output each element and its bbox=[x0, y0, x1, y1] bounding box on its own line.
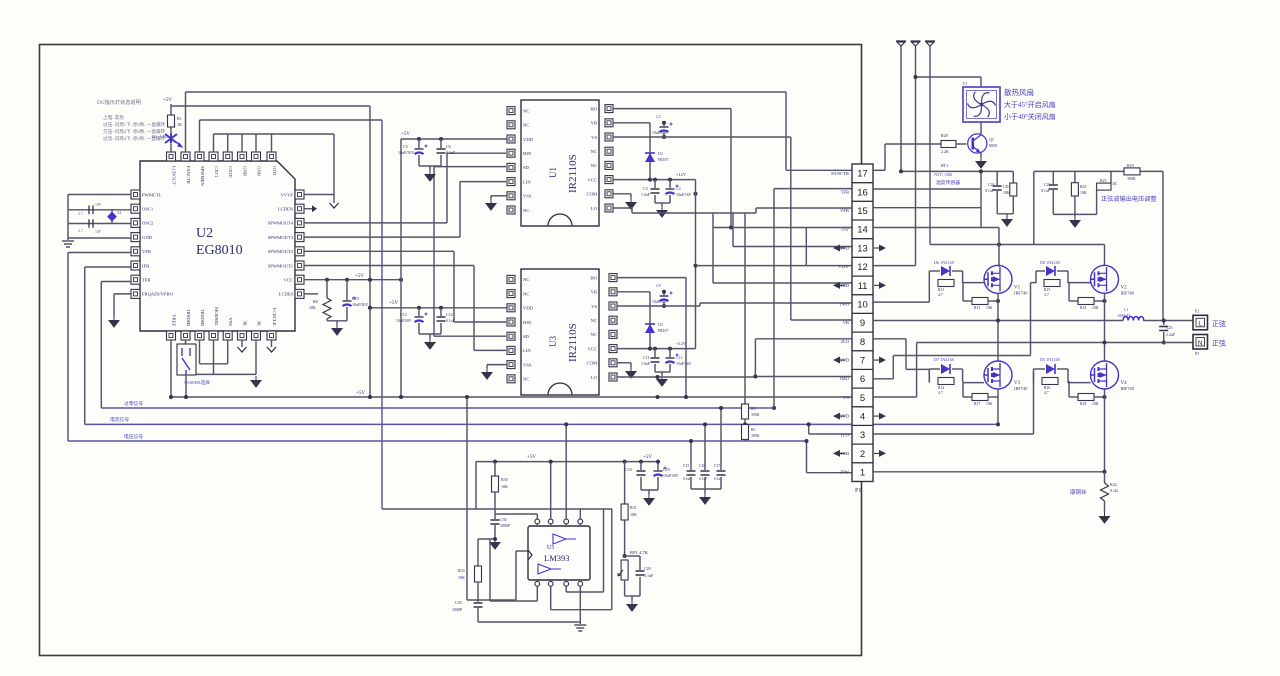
wire taps bbox=[1052, 171, 1054, 184]
U3 left pins bbox=[507, 275, 515, 283]
svg-text:10uF/50V: 10uF/50V bbox=[652, 131, 668, 135]
svg-text:SD: SD bbox=[523, 165, 530, 170]
svg-text:D1: D1 bbox=[152, 134, 157, 139]
wire VVVF bbox=[304, 194, 334, 196]
svg-text:HO: HO bbox=[590, 106, 597, 111]
wire bottom pins 3-5 bus bbox=[199, 340, 201, 364]
resistor R8 10K bbox=[326, 280, 328, 298]
pin8b stub arrow bbox=[271, 340, 273, 347]
crystal X1 bbox=[111, 210, 113, 224]
svg-text:FANCTR: FANCTR bbox=[831, 171, 850, 176]
join and ground bbox=[624, 580, 626, 596]
wire SPWMOUT1 to U3 LIN bbox=[304, 265, 474, 267]
wire V1 source to V3 drain bbox=[997, 293, 999, 361]
svg-text:LO: LO bbox=[591, 206, 598, 211]
svg-text:390K: 390K bbox=[751, 413, 760, 417]
svg-text:VB: VB bbox=[591, 121, 597, 126]
svg-text:CXT0: CXT0 bbox=[228, 166, 233, 178]
svg-text:0.1uF: 0.1uF bbox=[985, 189, 995, 193]
svg-text:OTD: OTD bbox=[272, 166, 277, 176]
wire caps join ground bbox=[418, 323, 420, 334]
wire V2 source to V4 drain bbox=[1104, 293, 1106, 361]
svg-text:C19: C19 bbox=[663, 467, 670, 472]
svg-text:10K: 10K bbox=[1092, 402, 1099, 406]
LED D1 bbox=[165, 134, 177, 144]
wire U3 COM to ground bbox=[617, 362, 631, 364]
svg-text:10: 10 bbox=[857, 299, 868, 310]
join and ground bbox=[1052, 190, 1054, 214]
wire P1 pin15 right bbox=[873, 207, 981, 209]
svg-text:VCC: VCC bbox=[588, 346, 597, 351]
resistor R31 10K bbox=[624, 462, 626, 504]
feedback bus IFB bbox=[85, 423, 998, 425]
svg-text:C18: C18 bbox=[625, 467, 632, 472]
wire P1 pin5 +5V bus bbox=[171, 396, 852, 398]
svg-text:R33: R33 bbox=[458, 568, 465, 573]
capacitor C24 0.1uF bbox=[993, 186, 1002, 190]
diode D2 FR107 bbox=[645, 153, 655, 162]
svg-text:RT1: RT1 bbox=[941, 163, 948, 168]
capacitor C3 1.0uF bbox=[654, 180, 656, 188]
wire FRQADJ to ground bbox=[114, 293, 131, 295]
wire taps bbox=[996, 171, 998, 185]
join ground bbox=[640, 477, 642, 490]
capacitor C14 0.1uF bbox=[440, 308, 442, 316]
wire U3 VCC +12V bbox=[617, 348, 696, 350]
svg-text:12: 12 bbox=[857, 262, 868, 273]
svg-text:C8: C8 bbox=[656, 283, 661, 288]
junction bbox=[1103, 341, 1107, 345]
wire pin7b down bbox=[255, 340, 257, 374]
resistor R5 390K bbox=[742, 425, 749, 440]
svg-text:正弦: 正弦 bbox=[1212, 319, 1226, 328]
capacitor C19 10uF/50V bbox=[657, 461, 659, 463]
ic U3 IR2110S body bbox=[521, 269, 599, 395]
svg-text:LCDE0: LCDE0 bbox=[279, 292, 294, 297]
svg-text:IRF740: IRF740 bbox=[1121, 290, 1135, 295]
mosfet V4 IRF740 bbox=[1091, 361, 1119, 389]
capacitor C13 10uF/50V bbox=[418, 308, 420, 316]
wire U1 LO to P1 pin15 bbox=[613, 207, 632, 209]
wire pin5 riser to N bbox=[916, 343, 918, 398]
svg-text:+12V: +12V bbox=[838, 264, 849, 269]
capacitor C29 1000P bbox=[477, 582, 479, 602]
svg-text:SPWMOUT2: SPWMOUT2 bbox=[268, 249, 294, 254]
svg-text:R16: R16 bbox=[1044, 386, 1050, 390]
svg-text:+5V: +5V bbox=[356, 391, 365, 396]
svg-text:R15: R15 bbox=[1044, 288, 1050, 292]
svg-text:VCC: VCC bbox=[588, 177, 597, 182]
svg-text:4.7: 4.7 bbox=[1044, 391, 1049, 395]
ground bbox=[490, 538, 500, 549]
wire U1 COM to ground bbox=[613, 193, 631, 195]
U1 right pins bbox=[605, 105, 613, 113]
capacitor C10 10uF/50V bbox=[346, 280, 348, 300]
svg-text:VSS: VSS bbox=[523, 194, 532, 199]
svg-text:LO: LO bbox=[591, 375, 598, 380]
wire bbox=[170, 144, 172, 152]
ic U5 LM393 body bbox=[528, 526, 590, 580]
svg-text:10uF/50V: 10uF/50V bbox=[663, 474, 679, 478]
svg-text:HIN: HIN bbox=[523, 320, 532, 325]
wire P1 pin11 gnd bbox=[713, 282, 852, 284]
svg-text:+5V: +5V bbox=[389, 301, 398, 306]
capacitor C6 0.1uF bbox=[440, 139, 442, 148]
svg-text:+12V: +12V bbox=[676, 172, 687, 177]
svg-text:PWMCTL: PWMCTL bbox=[142, 192, 162, 197]
mosfet V1 IRF740 bbox=[984, 265, 1012, 293]
svg-text:+12V: +12V bbox=[676, 341, 687, 346]
svg-text:+5V: +5V bbox=[643, 455, 652, 460]
svg-text:SPWMOUT4: SPWMOUT4 bbox=[268, 221, 294, 226]
wire LCDEN stub bbox=[304, 208, 312, 210]
svg-text:R31: R31 bbox=[630, 505, 637, 510]
svg-text:GND: GND bbox=[243, 166, 248, 177]
svg-text:C11: C11 bbox=[643, 355, 650, 360]
svg-text:X1: X1 bbox=[117, 211, 122, 215]
svg-text:IRF740: IRF740 bbox=[1014, 386, 1028, 391]
svg-text:JK: JK bbox=[257, 321, 262, 327]
op-amp triangles bbox=[538, 534, 566, 574]
wire U1 HO to P1 pin14 bbox=[613, 108, 731, 110]
svg-text:FR107: FR107 bbox=[658, 329, 668, 333]
svg-text:C6: C6 bbox=[446, 144, 451, 149]
svg-text:1.0uF: 1.0uF bbox=[641, 193, 650, 197]
svg-text:C16: C16 bbox=[699, 464, 705, 468]
svg-text:COM: COM bbox=[587, 361, 597, 366]
ground bbox=[626, 198, 636, 209]
capacitor C23 2.2uF bbox=[1163, 321, 1165, 326]
resistor R18 10K pulldown bbox=[1068, 381, 1070, 397]
svg-text:NC: NC bbox=[523, 123, 529, 128]
wires bottom pins bbox=[536, 586, 538, 601]
svg-text:C29: C29 bbox=[455, 600, 462, 605]
fan F1 bbox=[963, 87, 1000, 122]
svg-text:EG8010: EG8010 bbox=[196, 243, 243, 258]
svg-text:5: 5 bbox=[860, 393, 865, 404]
P1 gnd arrows bbox=[833, 245, 840, 252]
svg-text:1LO: 1LO bbox=[841, 432, 850, 437]
svg-text:NTC-10K: NTC-10K bbox=[934, 172, 953, 177]
svg-text:IRF740: IRF740 bbox=[1014, 290, 1028, 295]
svg-text:0.1uF: 0.1uF bbox=[446, 319, 455, 323]
svg-text:TFB: TFB bbox=[142, 278, 150, 283]
resistor R1 1K bbox=[168, 115, 175, 127]
svg-text:TRSD0B: TRSD0B bbox=[186, 309, 191, 326]
svg-text:R12: R12 bbox=[938, 386, 944, 390]
svg-text:P3: P3 bbox=[1195, 351, 1199, 356]
svg-text:VFB: VFB bbox=[840, 208, 849, 213]
wire VFB feedback bbox=[68, 252, 131, 254]
wire U1 VSS to ground bbox=[491, 195, 507, 197]
svg-text:10uF/50V: 10uF/50V bbox=[398, 150, 414, 155]
svg-text:康铜丝: 康铜丝 bbox=[1070, 488, 1087, 496]
svg-text:大于45°开启风扇: 大于45°开启风扇 bbox=[1004, 100, 1056, 109]
wire caps to ground bbox=[418, 155, 420, 166]
wire divider column bbox=[744, 213, 746, 404]
capacitor C1 10P bbox=[89, 206, 93, 215]
svg-text:R24: R24 bbox=[1110, 482, 1117, 487]
resistor R19 390K bbox=[1124, 168, 1140, 175]
wire V4 source to shunt row bbox=[1104, 389, 1106, 472]
svg-text:LCDCLK: LCDCLK bbox=[272, 308, 277, 327]
svg-text:过压: 闪烁1下, 停2秒, 一直循环: 过压: 闪烁1下, 停2秒, 一直循环 bbox=[103, 121, 166, 128]
svg-text:R23: R23 bbox=[1080, 185, 1087, 189]
svg-text:4.7: 4.7 bbox=[938, 293, 943, 297]
svg-text:IR2110S: IR2110S bbox=[567, 154, 579, 193]
wire top gnd bus bbox=[213, 134, 215, 152]
svg-text:C4: C4 bbox=[676, 186, 681, 191]
svg-text:17: 17 bbox=[857, 169, 868, 180]
svg-text:C24: C24 bbox=[988, 183, 995, 187]
svg-text:+5V: +5V bbox=[401, 132, 410, 137]
wire pin1 tap bbox=[806, 441, 808, 473]
svg-text:VSS: VSS bbox=[228, 318, 233, 327]
svg-text:LM393: LM393 bbox=[544, 553, 570, 563]
svg-text:8050: 8050 bbox=[989, 143, 997, 148]
svg-text:小于40°关闭风扇: 小于40°关闭风扇 bbox=[1004, 112, 1056, 121]
svg-text:NC: NC bbox=[591, 318, 597, 323]
svg-text:R21: R21 bbox=[1100, 179, 1107, 183]
shunt resistor R24 0.1R bbox=[1104, 472, 1106, 483]
wire pin6 to V2 gate riser bbox=[893, 355, 1030, 357]
power flag VCC1 bbox=[896, 41, 906, 49]
svg-text:10P: 10P bbox=[95, 203, 101, 207]
svg-text:SPWMOUT3: SPWMOUT3 bbox=[268, 235, 294, 240]
svg-text:D3: D3 bbox=[658, 322, 663, 327]
wire to switch bbox=[196, 373, 256, 375]
svg-text:GND: GND bbox=[257, 166, 262, 177]
wire Q1 emitter gnd bbox=[980, 153, 982, 157]
wire P1 pin17 right bbox=[873, 169, 885, 171]
svg-text:HIN: HIN bbox=[523, 151, 532, 156]
ground bbox=[425, 338, 435, 349]
wire P1 pin13 gnd bbox=[733, 246, 852, 248]
filter capacitors C15 C16 C17 bbox=[690, 441, 692, 470]
svg-text:R11: R11 bbox=[938, 288, 944, 292]
ground bar bbox=[62, 241, 74, 247]
resistor R30 10K bbox=[494, 462, 496, 476]
svg-text:VSS: VSS bbox=[523, 362, 532, 367]
svg-text:50/60HZ选择: 50/60HZ选择 bbox=[184, 379, 210, 386]
wire LCDE0 pin bbox=[304, 293, 318, 295]
capacitor C30 1000P bbox=[494, 516, 496, 519]
wire long riser x467 bbox=[466, 397, 468, 600]
wire caps join ground bbox=[654, 364, 656, 372]
svg-text:D6 1N4148: D6 1N4148 bbox=[934, 260, 954, 265]
join and ground bbox=[996, 191, 998, 214]
svg-text:R8: R8 bbox=[313, 299, 318, 304]
svg-text:NC: NC bbox=[523, 377, 529, 382]
svg-text:NC: NC bbox=[523, 108, 529, 113]
svg-text:OSC1: OSC1 bbox=[142, 207, 154, 212]
wire pin3 tap bbox=[808, 424, 810, 434]
ground bbox=[425, 170, 435, 181]
svg-text:COM: COM bbox=[587, 192, 597, 197]
svg-text:P1: P1 bbox=[855, 488, 861, 494]
svg-text:16: 16 bbox=[857, 187, 868, 198]
svg-text:FANCTR: FANCTR bbox=[186, 166, 191, 185]
svg-text:TFB: TFB bbox=[841, 189, 849, 194]
svg-text:VDD: VDD bbox=[523, 306, 534, 311]
svg-text:+5V: +5V bbox=[841, 227, 850, 232]
svg-text:10uF/16V: 10uF/16V bbox=[676, 193, 692, 197]
wire P1 pin16 to RT1 bbox=[873, 188, 981, 190]
wire TFB feedback bbox=[101, 281, 131, 283]
svg-text:2LO: 2LO bbox=[841, 339, 850, 344]
capacitor C5 10uF/50V bbox=[418, 139, 420, 148]
capacitor C21 0.1uF bbox=[1049, 185, 1058, 189]
svg-text:NC: NC bbox=[523, 208, 529, 213]
svg-text:2.2uF: 2.2uF bbox=[1166, 333, 1176, 337]
svg-text:C23: C23 bbox=[1166, 326, 1173, 330]
svg-text:1K: 1K bbox=[177, 122, 182, 127]
svg-text:0.1uF: 0.1uF bbox=[699, 477, 707, 481]
svg-text:散热风扇: 散热风扇 bbox=[1004, 87, 1034, 97]
svg-text:电流信号: 电流信号 bbox=[110, 416, 129, 423]
wire caps join ground bbox=[654, 195, 656, 203]
wire U1 VCC +12V bbox=[613, 179, 696, 181]
switch 50/60Hz select bbox=[185, 340, 187, 344]
mosfet V2 IRF740 bbox=[1091, 265, 1119, 293]
svg-text:VB: VB bbox=[843, 320, 849, 325]
svg-text:+5V: +5V bbox=[355, 274, 364, 279]
svg-text:1000P: 1000P bbox=[500, 523, 511, 528]
svg-text:VREF: VREF bbox=[172, 314, 177, 326]
ground bbox=[657, 375, 667, 386]
svg-text:正弦: 正弦 bbox=[1212, 339, 1226, 348]
wire pin1b to +5V bus bbox=[170, 340, 172, 397]
svg-text:C2: C2 bbox=[656, 114, 661, 119]
connector P1 17 pins bbox=[852, 164, 873, 482]
svg-text:C5: C5 bbox=[403, 144, 408, 149]
svg-text:VVVF: VVVF bbox=[280, 192, 293, 197]
wire U3 VB bbox=[617, 291, 650, 293]
svg-text:10K: 10K bbox=[986, 402, 993, 406]
svg-text:10uF/50V: 10uF/50V bbox=[352, 302, 368, 307]
wire U1 VS to P1 pin9 bbox=[613, 136, 791, 138]
wire risers bbox=[475, 462, 477, 509]
svg-text:U5: U5 bbox=[547, 545, 554, 551]
wire output N line bbox=[917, 342, 1193, 344]
svg-text:Q1: Q1 bbox=[989, 137, 994, 142]
U2 top pins bbox=[167, 152, 176, 161]
svg-text:10K: 10K bbox=[501, 484, 508, 489]
svg-text:U3: U3 bbox=[548, 336, 558, 347]
svg-text:0.1uF: 0.1uF bbox=[446, 150, 456, 155]
wire SD bus bbox=[433, 167, 435, 337]
svg-text:C10: C10 bbox=[352, 296, 359, 301]
ground bbox=[1100, 512, 1110, 523]
svg-text:10K: 10K bbox=[458, 575, 465, 580]
U2 right pins bbox=[295, 190, 304, 199]
feedback bus VFB bbox=[68, 440, 807, 442]
wire P1 pin16 TFB bbox=[774, 188, 852, 190]
wire V3 source to IFB bus bbox=[997, 389, 999, 424]
LM393 bottom pins bbox=[535, 581, 540, 586]
svg-text:N: N bbox=[1198, 340, 1203, 347]
svg-text:1MO: 1MO bbox=[839, 302, 849, 307]
svg-text:GND: GND bbox=[142, 235, 153, 240]
svg-text:C21: C21 bbox=[1044, 183, 1051, 187]
U3 right pins bbox=[609, 274, 617, 282]
ground bbox=[700, 493, 710, 504]
wire +5V vertical bbox=[369, 106, 371, 397]
wire cap join to ground bbox=[346, 307, 348, 321]
svg-text:FRQADJ/VFBO: FRQADJ/VFBO bbox=[142, 292, 174, 297]
svg-text:C15: C15 bbox=[683, 464, 689, 468]
svg-text:10K: 10K bbox=[986, 306, 993, 310]
svg-text:10K: 10K bbox=[1080, 191, 1087, 195]
ground bbox=[482, 368, 492, 379]
capacitor C11 1.0uF bbox=[654, 349, 656, 357]
svg-text:IFB: IFB bbox=[142, 263, 149, 268]
power flag VCC2 bbox=[911, 41, 921, 49]
svg-text:NC: NC bbox=[591, 149, 597, 154]
resistor R14 10K pulldown bbox=[1068, 283, 1070, 301]
U2 bottom pins bbox=[167, 331, 176, 340]
svg-text:0.1uF: 0.1uF bbox=[1041, 189, 1051, 193]
wire SPWMOUT2 to U3 HIN bbox=[304, 250, 454, 252]
svg-text:1: 1 bbox=[860, 468, 865, 479]
wire x382 to comparator loop bbox=[382, 508, 612, 510]
ground bar bbox=[574, 625, 586, 631]
diode D3 FR107 bbox=[645, 324, 655, 333]
transistor Q1 8050 bbox=[968, 134, 987, 153]
resistor R28 2.2K bbox=[885, 143, 941, 145]
feedback bus TFB bbox=[101, 407, 774, 409]
svg-text:13: 13 bbox=[857, 243, 868, 254]
svg-text:C13: C13 bbox=[400, 312, 407, 317]
svg-text:TRSD0B: TRSD0B bbox=[200, 309, 205, 326]
sheet border bbox=[40, 45, 862, 656]
resistor R3 390K bbox=[742, 404, 749, 419]
ground bbox=[626, 367, 636, 378]
svg-text:LCDOUT: LCDOUT bbox=[172, 166, 177, 185]
svg-text:10uF/16V: 10uF/16V bbox=[676, 362, 692, 366]
svg-text:U2: U2 bbox=[196, 226, 213, 241]
svg-text:IRF740: IRF740 bbox=[1121, 386, 1135, 391]
svg-text:9: 9 bbox=[860, 318, 865, 329]
U1 left pins bbox=[507, 107, 515, 115]
svg-text:L: L bbox=[1198, 321, 1202, 328]
wire P1 pin17 FANCTR bbox=[786, 169, 852, 171]
wire bbox=[170, 104, 172, 115]
svg-text:0.1uF: 0.1uF bbox=[683, 477, 691, 481]
svg-text:NC: NC bbox=[591, 332, 597, 337]
wire +12V vertical tie bbox=[695, 180, 697, 349]
capacitor C2 10P bbox=[89, 219, 93, 228]
capacitor C18 0.1uF bbox=[640, 462, 642, 470]
resistor R26 10K bbox=[1010, 183, 1017, 196]
svg-text:LIN: LIN bbox=[523, 348, 531, 353]
pin6b stub arrow bbox=[241, 340, 243, 347]
wire P1 pin6 bbox=[755, 376, 852, 378]
capacitor C20 0.1uF bbox=[625, 555, 640, 557]
U2 left pins bbox=[131, 190, 140, 199]
svg-text:RP1 4.7K: RP1 4.7K bbox=[630, 550, 649, 555]
svg-text:MODSEL: MODSEL bbox=[214, 307, 219, 326]
svg-text:4: 4 bbox=[860, 411, 865, 422]
svg-text:C3: C3 bbox=[643, 186, 648, 191]
bridge + rail bbox=[930, 244, 1105, 246]
svg-text:VS: VS bbox=[843, 395, 849, 400]
mosfet V3 IRF740 bbox=[984, 361, 1012, 389]
wire bbox=[170, 127, 172, 134]
wire OSC2 bbox=[68, 223, 131, 225]
svg-text:10K: 10K bbox=[630, 512, 637, 517]
svg-text:3: 3 bbox=[860, 430, 865, 441]
